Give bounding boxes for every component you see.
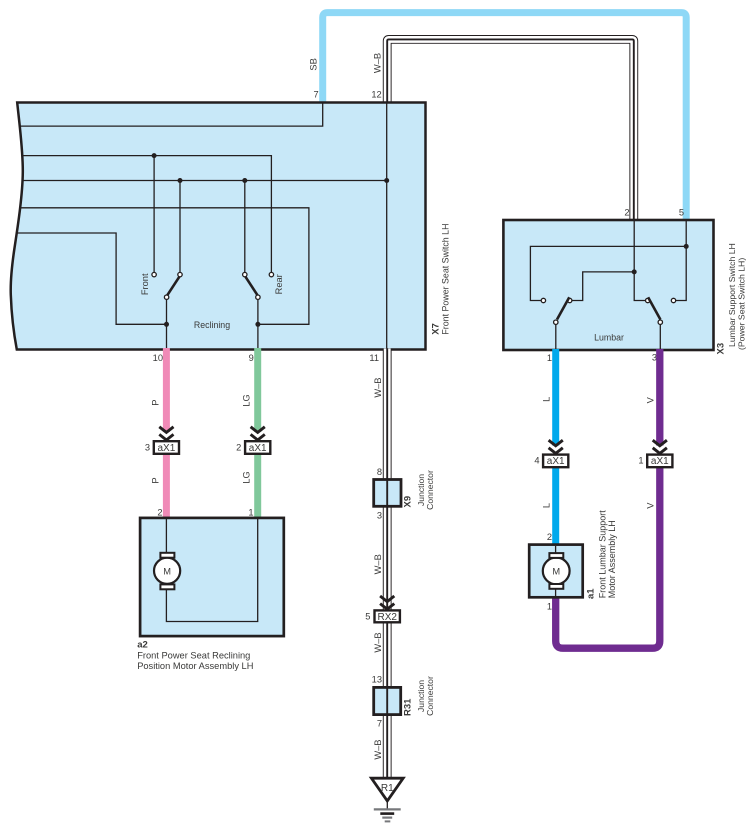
svg-text:Rear: Rear bbox=[274, 274, 284, 294]
node C2 bbox=[242, 178, 247, 183]
wire stripe across X9 bbox=[386, 479, 388, 508]
wire X3 H1 bbox=[530, 246, 686, 300]
svg-text:1: 1 bbox=[638, 456, 643, 466]
wire a2 internal loop bbox=[166, 519, 257, 622]
svg-text:W–B: W–B bbox=[373, 53, 383, 73]
svg-text:Front: Front bbox=[140, 273, 150, 295]
wire L pin1 to motor a1 bbox=[552, 349, 559, 446]
wire W-B pin12-to-pin2 outer bbox=[387, 39, 634, 221]
svg-text:8: 8 bbox=[377, 467, 382, 477]
wire Front pivot to pin10 bbox=[166, 299, 168, 349]
wire W-B pin11 white core bbox=[384, 349, 391, 779]
svg-text:7: 7 bbox=[377, 718, 382, 728]
svg-text:RX2: RX2 bbox=[377, 612, 397, 623]
wire internal B branch to Front contact bbox=[153, 156, 155, 273]
svg-text:V: V bbox=[646, 396, 656, 403]
wire V pin3 to motor a1 bbox=[656, 349, 663, 446]
svg-text:Connector: Connector bbox=[425, 470, 435, 510]
wire internal B bbox=[22, 156, 271, 273]
svg-text:12: 12 bbox=[371, 90, 381, 100]
svg-text:Front Lumbar Support: Front Lumbar Support bbox=[598, 510, 608, 599]
wire C branch to Front arm bbox=[179, 181, 181, 273]
motor a2 circle bbox=[154, 558, 180, 584]
arrow chevrons L bbox=[549, 440, 563, 453]
ground bar 2 bbox=[380, 812, 394, 815]
node C3 on W-B line bbox=[384, 178, 389, 183]
svg-text:a1: a1 bbox=[586, 588, 597, 599]
node B-branch bbox=[152, 153, 157, 158]
wire internal D bbox=[21, 208, 309, 324]
node X3 pin5-H1 bbox=[684, 244, 689, 249]
svg-text:W–B: W–B bbox=[373, 378, 383, 398]
switch X3 right arm bbox=[648, 297, 660, 319]
switch Rear pivot bbox=[256, 295, 260, 299]
motor box a2 bbox=[140, 518, 284, 636]
wire SB pin7-to-pin5 bbox=[323, 13, 687, 221]
svg-text:Motor Assembly LH: Motor Assembly LH bbox=[607, 520, 617, 598]
wire internal A from pin7 bbox=[20, 103, 323, 126]
svg-text:L: L bbox=[542, 503, 552, 508]
switch Front arm top contact bbox=[178, 272, 182, 276]
ground bar 3 bbox=[382, 816, 392, 818]
connector RX2 bbox=[375, 610, 400, 622]
svg-text:2: 2 bbox=[624, 208, 629, 218]
svg-text:Front Power Seat Switch LH: Front Power Seat Switch LH bbox=[440, 224, 450, 335]
switch Rear arm top contact bbox=[243, 272, 247, 276]
connector aX1 pin3 bbox=[154, 441, 179, 454]
motor a2 bottom brush bbox=[160, 584, 174, 589]
motor a2 top brush bbox=[160, 553, 174, 558]
wire internal E bbox=[17, 233, 167, 324]
wire a1 internal bottom bbox=[555, 589, 557, 597]
node X3 pin2-H2 bbox=[632, 269, 637, 274]
wire Rear pivot to pin9 bbox=[257, 299, 259, 349]
junction connector R31 bbox=[374, 687, 401, 714]
wire V below connector to motor a1 bbox=[556, 467, 660, 648]
svg-text:LG: LG bbox=[242, 394, 252, 406]
svg-text:W–B: W–B bbox=[373, 632, 383, 652]
motor a1 bottom brush bbox=[549, 584, 563, 589]
svg-text:a2: a2 bbox=[137, 639, 148, 650]
svg-text:LG: LG bbox=[242, 471, 252, 483]
svg-text:11: 11 bbox=[369, 353, 379, 363]
switch Front pivot bbox=[164, 295, 168, 299]
motor a1 top brush bbox=[549, 553, 563, 558]
switch Rear fixed contact bbox=[269, 272, 273, 276]
svg-text:aX1: aX1 bbox=[158, 443, 176, 454]
svg-text:aX1: aX1 bbox=[249, 443, 267, 454]
wire C branch to Rear arm bbox=[244, 181, 246, 273]
svg-text:2: 2 bbox=[547, 532, 552, 542]
svg-text:Connector: Connector bbox=[425, 676, 435, 716]
svg-text:M: M bbox=[163, 567, 171, 577]
wire pin12 to pin11 internal bbox=[386, 103, 388, 350]
wire X3 H2 bbox=[572, 272, 634, 301]
contact X3 right-right bbox=[671, 298, 675, 302]
svg-text:5: 5 bbox=[365, 612, 370, 622]
svg-text:Lumbar Support Switch LH: Lumbar Support Switch LH bbox=[727, 243, 737, 347]
svg-text:P: P bbox=[150, 399, 160, 405]
switch box X3 bbox=[503, 220, 713, 350]
wire W-B pin11 to ground outer bbox=[383, 349, 392, 779]
wire ground stub bbox=[386, 801, 388, 809]
node junction pin10 bbox=[164, 322, 169, 327]
svg-text:M: M bbox=[552, 567, 560, 577]
svg-text:Reclining: Reclining bbox=[194, 320, 230, 330]
wire a2 internal left bbox=[165, 519, 167, 553]
switch X3 left pivot bbox=[554, 320, 558, 324]
wire a1 internal top bbox=[555, 546, 557, 553]
wire W-B pin12-to-pin2 white core bbox=[387, 39, 634, 221]
node junction pin9 bbox=[255, 322, 260, 327]
switch X3 right pivot bbox=[658, 320, 662, 324]
svg-text:W–B: W–B bbox=[373, 740, 383, 760]
svg-text:2: 2 bbox=[157, 508, 162, 518]
motor a1 circle bbox=[543, 558, 570, 585]
svg-text:L: L bbox=[542, 397, 552, 402]
arrow chevrons LG bbox=[251, 427, 265, 440]
junction connector X9 bbox=[374, 480, 401, 507]
wire X3 left pivot to pin1 bbox=[555, 324, 557, 350]
svg-text:R31: R31 bbox=[403, 698, 414, 716]
svg-text:7: 7 bbox=[314, 90, 319, 100]
svg-text:1: 1 bbox=[547, 353, 552, 363]
wire P pin10 to motor bbox=[163, 348, 170, 432]
connector aX1 pin4 bbox=[543, 455, 568, 468]
switch Rear arm bbox=[246, 277, 258, 295]
wire X3 right pivot to pin3 bbox=[659, 324, 661, 350]
svg-text:aX1: aX1 bbox=[651, 456, 669, 467]
switch Front fixed contact bbox=[152, 272, 156, 276]
wire L below connector bbox=[552, 467, 559, 546]
svg-text:X3: X3 bbox=[716, 343, 727, 355]
svg-text:Position Motor Assembly LH: Position Motor Assembly LH bbox=[137, 661, 253, 671]
svg-text:W–B: W–B bbox=[373, 554, 383, 574]
wire stripe across R31 bbox=[386, 686, 388, 715]
switch X3 left arm bbox=[557, 297, 569, 319]
svg-text:X9: X9 bbox=[403, 496, 414, 508]
wire X3 pin2 internal bbox=[634, 221, 645, 301]
ground bar 4 bbox=[385, 820, 391, 822]
svg-text:V: V bbox=[646, 502, 656, 509]
wire W-B pin12-to-pin2 stripe bbox=[387, 39, 634, 221]
contact X3 right-left bbox=[646, 298, 650, 302]
motor box a1 bbox=[529, 545, 583, 598]
ground bar 1 bbox=[374, 808, 401, 810]
svg-text:4: 4 bbox=[534, 456, 539, 466]
svg-text:13: 13 bbox=[372, 675, 382, 685]
svg-text:(Power Seat Switch LH): (Power Seat Switch LH) bbox=[737, 258, 747, 350]
node C1 bbox=[178, 178, 183, 183]
svg-text:SB: SB bbox=[309, 58, 319, 70]
wire LG pin9 to motor bbox=[254, 348, 261, 432]
svg-text:aX1: aX1 bbox=[547, 456, 565, 467]
svg-text:P: P bbox=[150, 477, 160, 483]
svg-text:2: 2 bbox=[236, 443, 241, 453]
svg-text:5: 5 bbox=[679, 208, 684, 218]
svg-text:Lumbar: Lumbar bbox=[594, 332, 624, 342]
wire LG below connector bbox=[254, 454, 261, 519]
connector aX1 pin1 bbox=[647, 455, 672, 468]
wire W-B pin11 stripe bbox=[386, 349, 388, 779]
svg-text:3: 3 bbox=[377, 510, 382, 520]
switch box X7 bbox=[11, 103, 426, 350]
arrow chevrons P bbox=[159, 427, 173, 440]
ground triangle R1 bbox=[371, 778, 403, 801]
wire internal C bbox=[22, 180, 386, 182]
contact X3 left-right bbox=[568, 298, 572, 302]
svg-text:Front Power Seat Reclining: Front Power Seat Reclining bbox=[137, 651, 250, 661]
svg-text:R1: R1 bbox=[381, 783, 394, 794]
svg-text:9: 9 bbox=[249, 353, 254, 363]
arrow chevrons W-B bbox=[380, 596, 394, 609]
wire X3 pin5 internal bbox=[676, 221, 687, 301]
wire P below connector bbox=[163, 454, 170, 519]
connector aX1 pin2 bbox=[245, 441, 270, 454]
arrow chevrons V bbox=[653, 440, 667, 453]
svg-text:3: 3 bbox=[145, 443, 150, 453]
svg-text:10: 10 bbox=[153, 353, 163, 363]
svg-text:1: 1 bbox=[248, 508, 253, 518]
switch Front arm bbox=[167, 277, 179, 295]
svg-text:1: 1 bbox=[547, 602, 552, 612]
contact X3 left-left bbox=[541, 298, 545, 302]
